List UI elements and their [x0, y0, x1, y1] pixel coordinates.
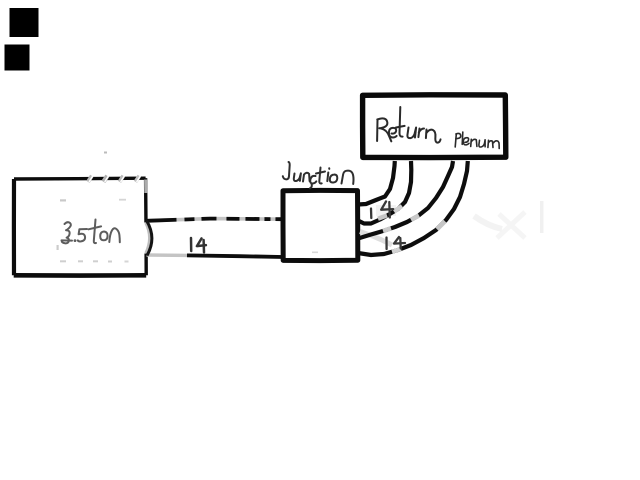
duct top line — [147, 219, 284, 221]
watermark band between risers — [360, 232, 392, 246]
riser curve 3 — [358, 161, 453, 239]
label Junction — [283, 162, 354, 188]
watermark slashes over unit box top border — [88, 176, 141, 182]
label Return — [377, 107, 440, 143]
unit box right border — [144, 178, 148, 275]
watermark slashes over riser curves — [378, 206, 445, 252]
unit box left border — [12, 179, 16, 275]
label 3.5 ton — [62, 220, 120, 244]
label 14 (riser upper) — [371, 202, 393, 219]
watermark ghost band — [104, 152, 544, 239]
unit box bottom border — [14, 273, 147, 278]
label Plenum — [455, 132, 499, 149]
riser curve 2 — [358, 161, 411, 224]
return plenum box — [363, 95, 506, 158]
duct end cap gap on unit box edge — [143, 223, 150, 254]
riser curve 1 — [358, 161, 395, 205]
duct bottom line — [147, 255, 284, 257]
corner square A (top-left logo block) — [10, 8, 39, 37]
label 14 (duct) — [191, 238, 206, 252]
unit box top border — [14, 176, 146, 180]
duct end cap arc — [146, 223, 150, 253]
riser curve 4 — [358, 161, 468, 255]
decimal point of 3.5 — [74, 239, 77, 242]
unit box (3.5 ton) — [16, 181, 144, 274]
unit box interior watermark specks — [57, 199, 129, 263]
gray segment of unit box right border — [144, 180, 147, 194]
junction box — [283, 190, 358, 260]
label 14 (riser lower) — [387, 237, 406, 249]
corner square B (lower logo block) — [5, 45, 30, 71]
junction interior speck — [312, 252, 318, 254]
